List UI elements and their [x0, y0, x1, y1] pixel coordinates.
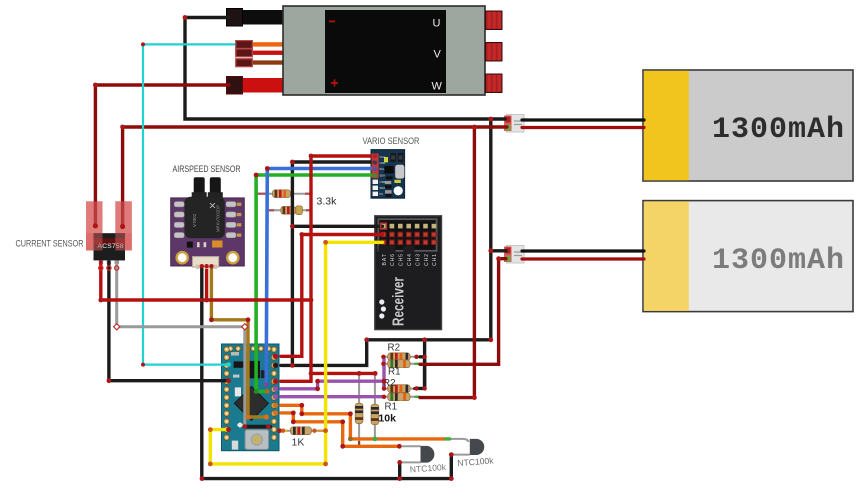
svg-text:PS: PS	[380, 192, 384, 196]
node: gray corner current sensor (hollow diamond)	[114, 324, 120, 330]
svg-text:3.3k: 3.3k	[317, 196, 338, 208]
svg-text:CURRENT SENSOR: CURRENT SENSOR	[16, 238, 84, 248]
wire: orange B Arduino to NTC100k #1	[281, 413, 399, 446]
receiver RX1	[375, 216, 442, 330]
node: orange B corner 1	[291, 411, 296, 416]
wire: battery connector 1 down trunk (black vertical)	[489, 119, 492, 340]
arduino label silk	[252, 438, 262, 441]
ESC plus mark	[331, 82, 338, 84]
wire: vario VCC trunk to Arduino VCC (red)	[281, 156, 374, 381]
svg-text:NTC100k: NTC100k	[409, 462, 447, 475]
wire: receiver BAT minus (black)	[292, 225, 382, 228]
ESC motor connector W	[486, 74, 503, 93]
node: orange B corner 3	[340, 419, 345, 424]
vario PCB	[371, 150, 405, 199]
node: vario green corner	[254, 173, 259, 178]
ESC minus mark	[329, 21, 335, 23]
node: NTC1 bottom junction	[397, 460, 402, 465]
wire: current sensor GND pin to Arduino (black)	[109, 262, 226, 381]
ESC servo wire brown	[250, 60, 285, 64]
wire: black trunk stub to battery connector 2	[491, 249, 506, 252]
node: NTC1 gnd T	[397, 476, 402, 481]
receiver antenna dots	[379, 299, 384, 304]
node: arduino pin red2	[273, 379, 278, 384]
overlay layer: parts drawn over wires	[86, 41, 379, 269]
wire: current sensor VIOUT bus (red y300)	[101, 262, 311, 300]
node: red bus corner	[120, 125, 125, 130]
node: arduino pin purple2	[273, 394, 278, 399]
svg-text:10k: 10k	[378, 413, 396, 425]
current sensor left pad	[86, 201, 103, 250]
node: vario blue corner	[265, 166, 270, 171]
wire: battery 1 red lead	[522, 126, 644, 129]
thermistor NTC100k #2	[450, 439, 495, 468]
resistor 3.3k S1	[257, 190, 310, 198]
airspeed pads left	[174, 202, 184, 238]
node: black corner R2B	[422, 386, 426, 390]
wire: orange A green tip at NTC2	[446, 437, 450, 440]
current sensor pins	[99, 260, 103, 264]
battery connector J1	[504, 115, 524, 133]
svg-text:R1: R1	[385, 402, 398, 413]
node: purple lead R1B	[382, 395, 386, 399]
vario pin name silk	[380, 155, 386, 196]
arduino left pin column	[224, 347, 230, 441]
wire: purple 1 Arduino D6 to resistor R2 pair-B	[281, 381, 384, 389]
airspeed bottom connector over wire tops	[193, 257, 219, 267]
resistor R1 pair B	[384, 393, 420, 401]
node: red T to divider tops	[309, 371, 314, 376]
svg-text:AIRSPEED SENSOR: AIRSPEED SENSOR	[173, 164, 241, 174]
wire: current sensor VIOUT gray to Arduino A0	[117, 262, 245, 427]
svg-text:U: U	[433, 18, 441, 30]
node: arduino pin black left	[226, 378, 231, 383]
receiver channel labels	[382, 254, 438, 266]
svg-text:CH3: CH3	[415, 254, 421, 266]
wire: battery 1 black lead	[522, 118, 644, 121]
vario MS5611 metal cap	[395, 165, 404, 179]
Arduino Pro Mini U2	[222, 344, 280, 451]
node: ESC black corner	[183, 15, 188, 20]
resistor 10k V1 (vertical)	[355, 373, 363, 446]
node: black bottom corner left	[200, 476, 205, 481]
node: dark red corner at R1B	[472, 395, 477, 400]
svg-text:R1: R1	[388, 367, 401, 378]
vario mounting hole	[394, 186, 403, 195]
ESC U1	[227, 6, 503, 95]
svg-text:GND: GND	[380, 161, 386, 165]
node: receiver black pin	[381, 223, 387, 229]
node: gray corner at arduino	[242, 324, 248, 330]
node: purple lead R1A	[381, 362, 385, 366]
resistor 3.3k S2	[267, 206, 310, 215]
ESC servo wire red	[250, 51, 285, 55]
ESC black label panel	[325, 10, 446, 93]
wire: Arduino A0 black jumper on board	[245, 425, 270, 429]
wire: orange A Arduino to NTC100k #2	[281, 405, 447, 439]
svg-text:CH6: CH6	[390, 254, 396, 266]
resistor R2 pair B	[384, 385, 420, 393]
node: black bus corner bottom	[488, 337, 493, 342]
node: yellow T at 1K	[323, 428, 328, 433]
node: orange B corner 4	[340, 444, 345, 449]
node: orange A corner 3	[348, 411, 353, 416]
current sensor body	[94, 233, 126, 260]
node: arduino pin black	[273, 363, 278, 368]
node: red drop corner at connector2	[496, 256, 501, 261]
node: yellow corner left	[208, 427, 213, 432]
svg-text:BAT: BAT	[382, 254, 388, 266]
wire: battery 2 black lead	[522, 249, 644, 252]
svg-text:VARIO SENSOR: VARIO SENSOR	[363, 136, 420, 146]
ESC motor connector V	[486, 43, 503, 62]
node: orange A corner 4	[348, 437, 353, 442]
airspeed port 1	[194, 177, 205, 198]
node: NTC1 top junction	[397, 444, 402, 449]
node: R2B right lead dot	[414, 386, 418, 390]
wire: black bus to Arduino GND (horizontal y340 + drop)	[281, 340, 491, 366]
svg-text:1300mAh: 1300mAh	[712, 244, 845, 278]
airspeed mounting hole right	[226, 251, 240, 265]
resistor R2 pair A	[383, 353, 420, 361]
node: black GND corner current sensor	[107, 378, 112, 383]
ESC servo sleeve 1 (over cyan)	[236, 41, 253, 49]
node: green end at arduino	[265, 389, 270, 394]
wire: battery 2 red lead	[522, 257, 644, 260]
wire: battery plus bus to current sensor right pad (dark red)	[123, 127, 507, 227]
node: 10k V1 top junction	[357, 371, 362, 376]
wire: dark red trunk from plus bus down to resistor R1 pair-B (dark red)	[420, 127, 474, 398]
node: olive corner at arduino	[245, 414, 250, 419]
ESC servo sleeve 2	[236, 49, 253, 57]
svg-text:MPXV7002DP: MPXV7002DP	[216, 205, 221, 232]
wire: cyan ESC signal to Arduino D2	[143, 44, 237, 364]
wire: NTC100k #1 ground jog (black)	[398, 462, 401, 478]
arduino MCU chip (diamond)	[234, 386, 268, 420]
current sensor right pad	[115, 201, 132, 250]
wire: resistor R2 pair-A right lead black stub	[420, 357, 425, 389]
arduino pin holes	[225, 347, 275, 438]
node: olive corner 1	[209, 317, 214, 322]
node: junction red trunk top	[472, 125, 477, 130]
node: cyan corner top	[141, 42, 145, 46]
svg-text:CSB: CSB	[380, 180, 386, 184]
current sensor ACS758	[16, 201, 132, 264]
ESC servo wire orange	[250, 42, 285, 46]
node: current sensor pin marker 1	[99, 266, 103, 270]
svg-text:SDA: SDA	[380, 174, 386, 178]
receiver pin block	[378, 219, 436, 251]
arduino right pin column	[271, 347, 277, 441]
node: orange A corner 1	[299, 403, 304, 408]
resistor 1K	[281, 427, 326, 435]
node: arduino pin yellow right	[277, 428, 282, 433]
node: gray end at arduino A0	[242, 424, 247, 429]
node: V2 bottom green junction	[373, 437, 378, 442]
node: vario black corner	[290, 160, 295, 165]
node: olive corner 2	[246, 317, 251, 322]
node: red bus end T	[309, 298, 314, 303]
ESC motor connector U	[486, 11, 503, 30]
wire: receiver CH yellow loop to Arduino D8/D9	[210, 242, 382, 464]
node: black jumper end	[266, 424, 271, 429]
vario pin overlay over wire tips	[372, 154, 379, 179]
wire: airspeed sensor VCC drop (red)	[205, 266, 208, 300]
resistor 10k V2 (vertical)	[371, 373, 379, 439]
arduino reset button	[245, 430, 268, 450]
wire: ESC battery plus to current sensor left pad (dark red)	[95, 85, 229, 226]
vario smd caps top	[390, 153, 395, 162]
node: arduino pin red1	[273, 354, 278, 359]
receiver pins grid	[381, 224, 436, 245]
node: airspeed pin 3	[209, 264, 213, 268]
node: green corner at arduino	[254, 389, 259, 394]
node: junction black trunk at connector2	[488, 248, 493, 253]
ESC body	[283, 6, 485, 95]
arduino board	[222, 344, 280, 451]
svg-text:1K: 1K	[292, 437, 305, 449]
svg-text:CH5: CH5	[399, 254, 405, 266]
node: junction black trunk top	[488, 117, 493, 122]
node: black bus T at R2 drop	[422, 337, 427, 342]
svg-text:VCC: VCC	[380, 155, 386, 159]
node: airspeed pin 1	[200, 264, 204, 268]
airspeed PCB	[171, 198, 245, 266]
vario pin pads	[373, 154, 377, 158]
node: R2A right lead dot	[414, 355, 418, 359]
svg-text:W: W	[432, 81, 443, 93]
ESC thick battery minus wire	[240, 10, 285, 25]
node: current sensor signal corner	[98, 298, 103, 303]
node: arduino pin yellow left	[226, 427, 231, 432]
node: receiver red corner	[299, 232, 304, 237]
airspeed mounting hole left	[175, 251, 189, 265]
node: orange B corner 2	[291, 419, 296, 424]
wire: vario GND (black from vario down)	[292, 162, 374, 365]
node: cyan corner bottom	[141, 363, 145, 367]
svg-text:CH4: CH4	[407, 254, 413, 266]
svg-text:V7002: V7002	[192, 213, 197, 227]
node: receiver red vertical junction	[299, 298, 304, 303]
node: 10k V2 top junction	[373, 371, 378, 376]
battery connector J2	[504, 246, 524, 264]
node: arduino pin orange1	[273, 403, 278, 408]
resistor R1 pair A	[383, 360, 420, 368]
vario sensor MS5611	[363, 136, 420, 198]
node: airspeed pin 2	[204, 264, 208, 268]
node: ESC red corner	[93, 83, 98, 88]
wire: ESC battery minus to battery connector 1 (black)	[185, 18, 505, 120]
node: black stub R2A	[422, 355, 426, 359]
wire: red feed to 10k divider tops	[311, 372, 375, 375]
wire: airspeed sensor signal (olive) to Arduino	[211, 266, 266, 417]
node: current sensor left pad tip	[93, 223, 98, 228]
current sensor pads over wires	[86, 201, 103, 250]
arduino fritzing logo silk	[237, 423, 243, 428]
node: purple lead R2A	[381, 355, 385, 359]
airspeed passives row	[187, 242, 193, 248]
node: purple corner 2	[315, 379, 320, 384]
svg-text:R2: R2	[388, 343, 401, 354]
svg-text:V: V	[434, 49, 442, 61]
wire: vario SDA green to Arduino A4	[256, 175, 374, 391]
airspeed port 2	[210, 177, 221, 198]
node: yellow corner receiver	[323, 240, 328, 245]
node: current sensor pin marker 3	[115, 266, 119, 270]
svg-text:SCL: SCL	[380, 167, 386, 171]
node: purple corner 3	[382, 379, 387, 384]
battery B2 1300mAh	[643, 201, 853, 312]
vario mcu chip	[384, 166, 393, 173]
ESC thick battery plus wire	[240, 78, 285, 93]
ESC servo sleeve 3	[236, 59, 253, 67]
wire: purple 2 Arduino D5 to resistor R1 pair-B	[281, 395, 384, 398]
airspeed sensor chip body	[185, 197, 225, 238]
node: current sensor right pad tip	[120, 224, 125, 229]
node: black bottom corner right	[449, 476, 454, 481]
vario led	[384, 157, 388, 162]
arduino top pin row	[228, 346, 271, 351]
airspeed pads right	[226, 202, 236, 238]
svg-text:CH1: CH1	[432, 254, 438, 266]
wire: battery connector 2 red drop to resistor R1 pair-A (dark red)	[420, 259, 506, 365]
node: NTC2 gnd end	[449, 452, 454, 457]
vario small smds	[386, 176, 393, 179]
node: 1K right lead dot	[312, 429, 316, 433]
node: arduino pin orange2	[273, 410, 278, 415]
node: airspeed red junction	[204, 298, 209, 303]
node: black bus corner at x366	[364, 337, 369, 342]
node: arduino pin purple1	[273, 386, 278, 391]
receiver body	[375, 216, 442, 330]
node: yellow corner bottom right	[323, 462, 328, 467]
airspeed sensor MPXV7002DP	[171, 164, 245, 269]
arduino smd parts	[234, 361, 245, 367]
node: receiver BAT- T	[290, 224, 295, 229]
wire: resistor R2 pair-B right lead to black bus	[416, 340, 425, 389]
node: vario red corner	[309, 154, 314, 159]
svg-text:SDO: SDO	[380, 186, 386, 190]
node: purple corner 1	[315, 386, 320, 391]
wire: receiver BAT plus to Arduino RAW (red)	[281, 235, 382, 357]
thermistor NTC100k #1	[402, 446, 447, 475]
ESC servo sleeve 1	[236, 41, 253, 49]
node: olive end at arduino	[264, 414, 269, 419]
battery B1 1300mAh	[643, 70, 853, 181]
node: arduino pin cyan left	[226, 362, 231, 367]
node: purple lead R2B	[382, 386, 386, 390]
svg-text:1300mAh: 1300mAh	[712, 113, 845, 147]
node: current sensor pin marker 2	[107, 266, 111, 270]
node: orange A corner 2	[299, 411, 304, 416]
node: blue end at arduino	[264, 382, 269, 387]
svg-text:NTC100k: NTC100k	[457, 455, 495, 468]
vario lower pads	[373, 180, 378, 184]
svg-text:Receiver: Receiver	[391, 277, 408, 326]
vario pin overlay	[372, 154, 379, 179]
node: vario black junction on GND line	[290, 363, 295, 368]
airspeed bottom connector	[193, 257, 219, 267]
svg-text:CH2: CH2	[424, 254, 430, 266]
node: yellow corner bottom left	[208, 462, 213, 467]
node: 1K left lead dot	[281, 429, 285, 433]
current sensor body over pads	[94, 233, 126, 260]
wire: vario SCL blue to Arduino A5	[266, 169, 374, 385]
wire: airspeed sensor GND down and across bottom (black)	[202, 266, 451, 479]
wire: purple link between pair-A and pair-B left leads	[382, 357, 385, 389]
